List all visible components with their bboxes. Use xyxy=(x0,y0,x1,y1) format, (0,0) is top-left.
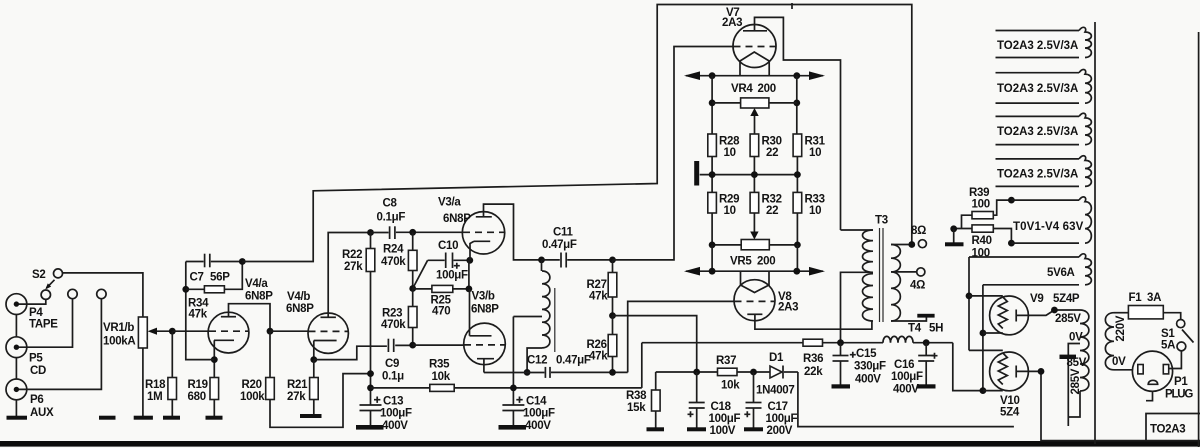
resistor R40 100 xyxy=(972,225,993,232)
svg-text:470k: 470k xyxy=(381,319,406,331)
svg-text:2A3: 2A3 xyxy=(722,17,742,29)
wire P6 to S2 contact xyxy=(19,299,101,390)
node C11 left xyxy=(538,257,545,264)
4 ohm tap xyxy=(891,271,917,273)
svg-text:200V: 200V xyxy=(767,425,793,437)
svg-text:10: 10 xyxy=(809,205,821,217)
capacitor C16 100uF 400V xyxy=(925,343,927,356)
wire P4-P5 shield link xyxy=(15,315,17,337)
resistor R20 100k xyxy=(269,331,271,377)
node bias mid xyxy=(609,312,616,319)
transformer core xyxy=(1094,22,1096,444)
svg-text:15k: 15k xyxy=(627,402,646,414)
V9 filament bottom wire xyxy=(982,285,984,391)
resistor R32 22 xyxy=(750,192,759,213)
svg-text:C15: C15 xyxy=(856,348,877,360)
rail terminal bar xyxy=(694,161,699,186)
svg-text:R29: R29 xyxy=(719,194,739,206)
V8 plate lead xyxy=(755,314,872,329)
power triode V7 2A3 xyxy=(733,25,776,68)
capacitor C7 56P xyxy=(186,261,204,263)
svg-text:100μF: 100μF xyxy=(891,371,923,383)
wire D1 to bottom rail xyxy=(798,372,1014,427)
resistor R24 470k xyxy=(412,232,414,250)
interstage inductor xyxy=(541,260,543,271)
fuse F1 3A xyxy=(1114,312,1128,314)
svg-text:R24: R24 xyxy=(383,244,404,256)
V4/b cathode lead xyxy=(313,341,315,360)
ground C16 xyxy=(917,384,936,388)
svg-text:VR5: VR5 xyxy=(730,256,752,268)
svg-text:TO2A3 2.5V/3A: TO2A3 2.5V/3A xyxy=(997,40,1078,52)
svg-text:TO2A3 2.5V/3A: TO2A3 2.5V/3A xyxy=(997,169,1078,181)
svg-text:4Ω: 4Ω xyxy=(910,280,925,292)
wire P5-P6 shield link xyxy=(15,358,17,379)
node wiper xyxy=(169,328,176,335)
svg-text:TO2A3: TO2A3 xyxy=(1150,424,1185,436)
node W5 bottom xyxy=(1008,240,1015,247)
wire P5 to S2 contact xyxy=(19,299,73,348)
svg-text:10: 10 xyxy=(809,147,821,159)
svg-text:285V: 285V xyxy=(1055,313,1081,325)
svg-text:R22: R22 xyxy=(342,249,362,261)
svg-text:220V: 220V xyxy=(1115,315,1127,341)
svg-text:R37: R37 xyxy=(716,355,736,367)
V3/b plate lead xyxy=(469,289,471,336)
svg-text:C11: C11 xyxy=(553,227,573,239)
svg-text:R28: R28 xyxy=(719,136,740,148)
heater line top xyxy=(686,75,823,77)
svg-text:56P: 56P xyxy=(210,272,230,284)
svg-text:22: 22 xyxy=(766,147,778,159)
capacitor C17 100uF 200V xyxy=(753,372,755,403)
svg-text:6N8P: 6N8P xyxy=(443,213,471,225)
node heater bottom right xyxy=(793,268,800,275)
svg-text:22: 22 xyxy=(766,205,778,217)
V7 plate lead xyxy=(755,17,841,230)
V3/a cathode lead xyxy=(470,241,474,260)
node VR5 left xyxy=(709,242,716,249)
wire R22 bottom to C13 xyxy=(370,272,372,406)
0V line to plug xyxy=(1114,369,1132,371)
node heater bottom left xyxy=(709,268,716,275)
svg-text:V9: V9 xyxy=(1030,293,1043,305)
node C10 right xyxy=(466,257,473,264)
svg-text:AUX: AUX xyxy=(30,407,54,419)
svg-text:6N8P: 6N8P xyxy=(286,303,314,315)
svg-text:C8: C8 xyxy=(383,198,398,210)
ground R21 xyxy=(300,414,322,418)
svg-text:0V: 0V xyxy=(1112,356,1126,368)
resistor R30 22 xyxy=(750,134,759,157)
node coil bottom xyxy=(524,369,531,376)
svg-text:100V: 100V xyxy=(710,425,736,437)
svg-text:V10: V10 xyxy=(1000,395,1020,407)
node R24 top xyxy=(409,229,416,236)
triode V3/b 6N8P xyxy=(464,323,506,365)
potentiometer VR1/b 100kA xyxy=(138,317,147,348)
svg-text:R32: R32 xyxy=(762,194,782,206)
T3 centre tap xyxy=(841,272,874,342)
node V9 filament bottom xyxy=(980,330,987,337)
svg-text:10k: 10k xyxy=(721,380,740,392)
node V4/b cathode xyxy=(310,356,317,363)
svg-text:100μF: 100μF xyxy=(766,413,798,425)
svg-text:C17: C17 xyxy=(768,401,788,413)
svg-text:VR4: VR4 xyxy=(731,83,753,95)
svg-text:R38: R38 xyxy=(626,390,647,402)
switch S1 5A xyxy=(1163,313,1180,320)
wire P4 to S2 contact xyxy=(19,299,46,304)
wire V8 grid riser xyxy=(628,301,735,372)
jack P4 TAPE xyxy=(6,294,27,315)
ground P6 xyxy=(15,400,17,416)
wire diagonal to C10 xyxy=(413,260,428,288)
jack P6 AUX xyxy=(6,379,27,400)
svg-text:100μF: 100μF xyxy=(709,413,741,425)
node R25 right xyxy=(466,286,473,293)
svg-text:R23: R23 xyxy=(382,308,402,320)
svg-text:5Z4P: 5Z4P xyxy=(1053,293,1080,305)
svg-text:C14: C14 xyxy=(526,396,547,408)
potentiometer VR4 200 xyxy=(712,102,741,104)
winding W3 TO2A3 2.5V/3A xyxy=(996,115,1080,117)
svg-text:400V: 400V xyxy=(893,384,919,396)
T3 primary top feed xyxy=(841,229,874,231)
svg-text:PLUG: PLUG xyxy=(1165,389,1193,401)
svg-text:8Ω: 8Ω xyxy=(911,225,926,237)
wire NFB from 8-ohm tap xyxy=(242,5,912,262)
wire bias feed xyxy=(613,316,697,372)
svg-text:R21: R21 xyxy=(287,379,308,391)
wire grid V3/b xyxy=(413,344,464,346)
svg-text:C7: C7 xyxy=(190,272,204,284)
potentiometer VR5 200 xyxy=(753,213,755,234)
node rail R31/R33 xyxy=(794,171,801,178)
svg-text:R39: R39 xyxy=(969,187,989,199)
svg-text:R33: R33 xyxy=(805,194,825,206)
svg-text:R26: R26 xyxy=(587,339,607,351)
triode V4/b 6N8P xyxy=(308,313,348,353)
rectifier V9 5Z4P xyxy=(990,296,1029,335)
winding W1 TO2A3 2.5V/3A xyxy=(996,30,1080,32)
svg-text:F1: F1 xyxy=(1129,292,1143,304)
svg-text:470k: 470k xyxy=(381,256,406,268)
svg-text:T0V1-V4 63V: T0V1-V4 63V xyxy=(1013,221,1084,233)
svg-text:0.1μ: 0.1μ xyxy=(382,371,404,383)
ground R19 xyxy=(206,416,223,420)
svg-text:100kA: 100kA xyxy=(103,336,135,348)
svg-text:0.1μF: 0.1μF xyxy=(377,212,406,224)
svg-text:85V: 85V xyxy=(1067,357,1087,369)
svg-text:6N8P: 6N8P xyxy=(471,304,499,316)
svg-text:P4: P4 xyxy=(29,307,43,319)
svg-text:5Z4: 5Z4 xyxy=(1000,407,1020,419)
svg-text:C10: C10 xyxy=(438,240,458,252)
resistor R25 470 xyxy=(413,288,432,290)
inductor core xyxy=(554,288,556,352)
winding TO2A3 bottom corner xyxy=(1146,414,1200,441)
capacitor C8 0.1uF xyxy=(371,232,389,234)
node R24 bottom xyxy=(409,285,416,292)
resistor R29 10 xyxy=(708,192,717,213)
node heater top left xyxy=(709,72,716,79)
node NFB left xyxy=(182,286,189,293)
V9 plate lead to HV top xyxy=(1016,310,1080,315)
svg-text:C13: C13 xyxy=(383,396,403,408)
wire B+ to rectifier cathode xyxy=(953,343,983,391)
plug P1 xyxy=(1132,351,1172,391)
HV winding 285V-0V-285V xyxy=(1080,310,1089,391)
svg-text:R40: R40 xyxy=(972,235,992,247)
resistor R27 47k xyxy=(612,260,614,273)
svg-text:2A3: 2A3 xyxy=(778,302,798,314)
svg-text:V4/a: V4/a xyxy=(245,278,268,290)
svg-text:5A: 5A xyxy=(1161,340,1175,352)
svg-text:T3: T3 xyxy=(875,215,888,227)
V9 filament top wire xyxy=(968,257,970,350)
svg-text:100: 100 xyxy=(972,199,990,211)
capacitor C11 0.47uF xyxy=(542,259,560,261)
capacitor C10 100uF xyxy=(428,259,445,261)
svg-text:100k: 100k xyxy=(240,391,265,403)
node C17 top xyxy=(750,369,757,376)
V8 filament xyxy=(741,271,770,292)
node C11 right xyxy=(609,257,616,264)
bottom scan border band xyxy=(0,441,1200,447)
V3/a plate lead xyxy=(484,204,542,260)
node rail R28/R29 xyxy=(709,171,716,178)
svg-text:VR1/b: VR1/b xyxy=(103,322,134,334)
node C18 top xyxy=(693,369,700,376)
winding 220V primary xyxy=(1105,313,1114,370)
wire R36 branch vertical xyxy=(641,343,643,388)
resistor R23 470k xyxy=(412,289,414,307)
svg-text:V3/a: V3/a xyxy=(438,197,461,209)
svg-text:27k: 27k xyxy=(287,391,306,403)
node NFB right xyxy=(239,258,246,265)
svg-text:22k: 22k xyxy=(804,366,823,378)
node C8 left xyxy=(367,229,374,236)
V4/a plate lead xyxy=(229,304,271,332)
power triode V8 2A3 xyxy=(734,280,775,321)
svg-text:100μF: 100μF xyxy=(436,270,468,282)
node heater top right xyxy=(793,72,800,79)
capacitor C13 100uF 400V xyxy=(360,404,382,406)
svg-text:C18: C18 xyxy=(711,401,732,413)
ink blot xyxy=(1060,355,1077,359)
svg-text:CD: CD xyxy=(30,365,46,377)
mid rail xyxy=(700,174,798,176)
svg-text:100μF: 100μF xyxy=(523,408,555,420)
node R20 top xyxy=(267,328,274,335)
svg-text:P6: P6 xyxy=(30,394,43,406)
HV bottom tap xyxy=(1068,391,1080,417)
ground R39/R40 xyxy=(953,229,955,243)
resistor R28 10 xyxy=(708,134,717,157)
wire S2 pole to VR1 top xyxy=(63,273,143,317)
wires resistors to mid rail xyxy=(712,157,797,193)
node R35 left xyxy=(367,385,374,392)
winding W4 TO2A3 2.5V/3A xyxy=(996,158,1080,160)
ground R38 xyxy=(647,427,665,431)
svg-text:200: 200 xyxy=(757,256,775,268)
wire cathode to NFB network xyxy=(186,262,215,360)
svg-text:TAPE: TAPE xyxy=(29,319,58,331)
svg-text:0.47μF: 0.47μF xyxy=(556,355,591,367)
svg-text:S1: S1 xyxy=(1161,328,1175,340)
svg-text:R27: R27 xyxy=(587,279,607,291)
node B+ C15 xyxy=(837,339,844,346)
svg-text:R18: R18 xyxy=(145,379,166,391)
svg-text:3A: 3A xyxy=(1147,292,1161,304)
resistor R37 10k xyxy=(718,368,738,375)
svg-text:R30: R30 xyxy=(762,136,782,148)
HV centre tap xyxy=(1068,344,1080,427)
resistor R38 15k xyxy=(655,372,657,390)
resistor R26 47k xyxy=(612,316,614,335)
rectifier V10 5Z4 xyxy=(990,352,1029,391)
8 ohm tap xyxy=(891,244,912,246)
svg-text:T4: T4 xyxy=(908,323,922,335)
svg-text:TO2A3 2.5V/3A: TO2A3 2.5V/3A xyxy=(997,83,1078,95)
node VR4 right xyxy=(793,100,800,107)
triode V3/a 6N8P xyxy=(462,212,504,254)
ground C13 xyxy=(356,425,384,430)
node rail R30/R32 xyxy=(751,171,758,178)
svg-text:47k: 47k xyxy=(589,351,608,363)
svg-text:R31: R31 xyxy=(805,136,826,148)
ground R18 xyxy=(163,416,180,420)
V7 filament xyxy=(740,52,769,76)
capacitor C9 0.1u xyxy=(314,346,387,359)
winding W6 5V6A xyxy=(969,256,1079,258)
svg-text:330μF: 330μF xyxy=(854,361,886,373)
svg-text:P1: P1 xyxy=(1174,376,1188,388)
svg-text:C12: C12 xyxy=(527,355,547,367)
inductor tap wire xyxy=(513,316,542,318)
capacitor C14 100uF 400V xyxy=(502,404,524,406)
wire left drop xyxy=(711,76,713,134)
node VR4 left xyxy=(709,100,716,107)
ground C18 xyxy=(687,427,706,431)
wire V4/a plate to V4/b grid xyxy=(270,330,308,332)
svg-text:47k: 47k xyxy=(189,309,208,321)
capacitor C12 0.47uF xyxy=(544,367,546,378)
svg-text:C16: C16 xyxy=(894,359,914,371)
ground C14 xyxy=(499,425,527,430)
svg-text:0V: 0V xyxy=(1069,332,1083,344)
capacitor C15 330uF 400V xyxy=(840,343,842,356)
wire cathode to C12 xyxy=(484,372,545,374)
heater line bottom xyxy=(686,270,823,272)
node V4/a cathode xyxy=(211,356,218,363)
node B+ a xyxy=(367,370,374,377)
resistor R18 1M xyxy=(171,331,173,377)
svg-text:200: 200 xyxy=(758,83,776,95)
svg-text:V4/b: V4/b xyxy=(287,291,310,303)
resistor R19 680 xyxy=(213,360,215,378)
node C14 top xyxy=(510,385,517,392)
ground VR1 xyxy=(134,416,153,420)
svg-text:400V: 400V xyxy=(382,420,408,432)
svg-text:5V6A: 5V6A xyxy=(1047,267,1075,279)
svg-text:R35: R35 xyxy=(429,359,450,371)
svg-text:1M: 1M xyxy=(147,391,162,403)
V4/a cathode lead xyxy=(213,340,215,359)
ground C17 xyxy=(744,427,763,431)
resistor R31 10 xyxy=(793,134,802,157)
svg-text:6N8P: 6N8P xyxy=(245,291,273,303)
bias line xyxy=(656,371,770,373)
capacitor C18 100uF 100V xyxy=(696,372,698,403)
svg-text:D1: D1 xyxy=(769,352,784,364)
svg-text:10: 10 xyxy=(724,205,736,217)
svg-text:285V: 285V xyxy=(1070,368,1082,394)
svg-text:400V: 400V xyxy=(855,374,881,386)
B+ rail with R36 22k xyxy=(642,342,803,344)
wire wiper to V4/a grid xyxy=(172,330,208,332)
svg-text:680: 680 xyxy=(188,391,206,403)
node V10 filament bottom xyxy=(980,387,987,394)
node C12 right xyxy=(609,369,616,376)
T3 core xyxy=(880,228,884,322)
wire VR1 bottom to ground xyxy=(142,348,144,416)
wire tap to C14 xyxy=(512,317,514,406)
diode D1 1N4007 xyxy=(770,366,782,378)
svg-text:10k: 10k xyxy=(432,371,451,383)
svg-text:P5: P5 xyxy=(29,353,43,365)
resistor R21 27k xyxy=(313,360,315,378)
svg-text:R19: R19 xyxy=(188,379,208,391)
svg-text:R20: R20 xyxy=(242,379,262,391)
svg-text:C9: C9 xyxy=(385,358,399,370)
triode V4/a 6N8P xyxy=(208,312,249,353)
secondary ground xyxy=(891,318,926,322)
resistor R22 27k xyxy=(370,233,372,249)
node W5 top xyxy=(1008,197,1015,204)
node VR5 right xyxy=(794,242,801,249)
svg-text:R36: R36 xyxy=(803,353,823,365)
node V9 filament top xyxy=(966,293,973,300)
svg-text:400V: 400V xyxy=(525,420,551,432)
jack P5 CD xyxy=(6,337,27,358)
resistor R34 47k xyxy=(186,288,205,290)
svg-text:1N4007: 1N4007 xyxy=(756,385,794,397)
svg-text:V3/b: V3/b xyxy=(472,291,495,303)
svg-text:100μF: 100μF xyxy=(380,408,412,420)
svg-text:470: 470 xyxy=(432,306,450,318)
svg-text:5H: 5H xyxy=(929,323,943,335)
node B+ C16 xyxy=(923,339,930,346)
floating ground bar xyxy=(99,416,116,420)
svg-text:27k: 27k xyxy=(344,261,363,273)
V10 plate lead xyxy=(1016,371,1200,440)
wire right drop xyxy=(796,76,798,134)
T3 secondary winding xyxy=(891,245,900,322)
choke T4 5H xyxy=(883,336,913,342)
T3 primary winding xyxy=(863,230,874,272)
V4/b plate lead xyxy=(328,233,370,318)
svg-text:0.47μF: 0.47μF xyxy=(542,239,577,251)
scan tick artifact xyxy=(791,3,793,9)
wire R20 bottom return jog xyxy=(270,374,371,428)
V10 filament wires xyxy=(969,349,1003,351)
winding W2 TO2A3 2.5V/3A xyxy=(996,72,1080,74)
node V3/b grid xyxy=(409,342,416,349)
svg-text:S2: S2 xyxy=(32,269,45,281)
V3/b cathode lead xyxy=(483,359,485,373)
